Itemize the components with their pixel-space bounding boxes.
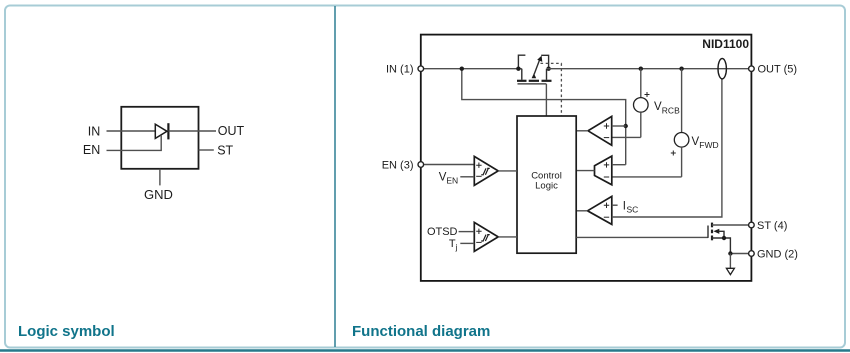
wire U4 output bbox=[498, 170, 517, 172]
junction switch pivot bbox=[546, 67, 550, 71]
wire GND stub bbox=[159, 169, 161, 186]
panel divider bbox=[334, 6, 336, 347]
svg-text:OUT (5): OUT (5) bbox=[758, 64, 798, 76]
wire ST bbox=[199, 149, 214, 151]
ground bbox=[726, 254, 734, 275]
Q2 gate bar bbox=[707, 226, 709, 238]
wire GND rail bbox=[730, 253, 751, 255]
svg-text:IN (1): IN (1) bbox=[386, 64, 414, 76]
voltage source VFWD bbox=[612, 69, 689, 177]
svg-text:IN: IN bbox=[88, 125, 101, 139]
svg-text:V: V bbox=[654, 101, 662, 113]
wire EN rail bbox=[421, 164, 475, 166]
junction comparator plus node bbox=[624, 124, 628, 128]
Q1 channel segments bbox=[517, 80, 527, 82]
Q1 body arrow bbox=[532, 73, 537, 78]
Q2 body arrow bbox=[713, 229, 719, 234]
Q1 drain lead bbox=[546, 69, 548, 80]
value label ISC bbox=[623, 200, 639, 214]
control logic block bbox=[517, 116, 576, 253]
comparator U2 (forward regulation) bbox=[595, 156, 612, 185]
comparator U5 thermal bbox=[474, 222, 498, 251]
wire U5 output bbox=[498, 236, 517, 238]
switch contact post bbox=[518, 55, 525, 68]
svg-text:OTSD: OTSD bbox=[427, 226, 458, 238]
wire gate to control logic bbox=[545, 84, 547, 116]
svg-text:EN (3): EN (3) bbox=[382, 159, 414, 171]
wire IN rail bbox=[421, 68, 522, 70]
Q1 gate bar bbox=[518, 83, 547, 85]
wire U3 output bbox=[576, 210, 587, 212]
svg-text:FWD: FWD bbox=[699, 140, 718, 150]
Q1 source lead bbox=[521, 69, 523, 80]
comparator U4 enable bbox=[474, 156, 498, 185]
svg-text:Functional diagram: Functional diagram bbox=[352, 323, 490, 340]
value label VEN bbox=[439, 171, 459, 185]
junction VRCB tap bbox=[639, 67, 643, 71]
wire U1 plus input bbox=[612, 125, 626, 127]
svg-text:ST (4): ST (4) bbox=[757, 220, 787, 232]
wire IN to diode bbox=[107, 130, 156, 132]
signal label Tj bbox=[449, 238, 458, 252]
junction IN sense bbox=[460, 67, 464, 71]
svg-text:V: V bbox=[692, 136, 700, 148]
wire OUT rail bbox=[547, 68, 752, 70]
Q2 source lead bbox=[712, 238, 730, 254]
wire U3 minus to sense bbox=[612, 78, 722, 217]
svg-text:Logic symbol: Logic symbol bbox=[18, 323, 115, 340]
comparator U1 (reverse block) bbox=[588, 116, 612, 145]
wire U2 output bbox=[576, 170, 594, 172]
svg-text:OUT: OUT bbox=[218, 124, 245, 138]
junction Q2 body-source bbox=[722, 236, 726, 240]
svg-text:RCB: RCB bbox=[662, 105, 680, 115]
wire diode to OUT bbox=[168, 130, 216, 132]
status transistor Q2 bbox=[708, 223, 730, 254]
junction VFWD tap bbox=[679, 67, 683, 71]
dashed gate control link bbox=[541, 63, 562, 116]
wire U3 plus stub bbox=[612, 204, 618, 206]
voltage source VRCB bbox=[612, 69, 648, 138]
svg-text:GND: GND bbox=[144, 187, 173, 202]
pin IN (1) bbox=[418, 66, 424, 72]
svg-text:ST: ST bbox=[217, 143, 233, 157]
pin ST (4) bbox=[749, 222, 755, 228]
Q2 body lead bbox=[719, 231, 724, 238]
svg-text:GND (2): GND (2) bbox=[757, 248, 798, 260]
svg-text:EN: EN bbox=[83, 143, 100, 157]
svg-text:j: j bbox=[455, 242, 458, 252]
svg-text:NID1100: NID1100 bbox=[702, 37, 749, 51]
junction switch contact bbox=[516, 67, 520, 71]
logic symbol box bbox=[121, 107, 198, 169]
diode D1 bbox=[155, 123, 168, 139]
wire Tj stub bbox=[460, 242, 474, 244]
pin GND (2) bbox=[749, 251, 755, 257]
wire OTSD stub bbox=[459, 231, 475, 233]
pass transistor Q1 bbox=[517, 69, 552, 84]
junction GND node bbox=[728, 251, 732, 255]
wire VEN stub bbox=[460, 176, 474, 178]
svg-text:SC: SC bbox=[627, 205, 639, 215]
wire EN to diode bbox=[107, 135, 162, 150]
wire U2 plus input bbox=[612, 164, 626, 166]
switch arm bbox=[534, 58, 540, 74]
VFWD plus sign bbox=[671, 151, 676, 156]
Q2 channel segments bbox=[711, 223, 713, 228]
pin EN (3) bbox=[418, 162, 424, 168]
svg-text:Logic: Logic bbox=[535, 181, 558, 192]
bottom teal rule bbox=[0, 349, 850, 351]
current sensor oval bbox=[718, 58, 726, 78]
svg-text:EN: EN bbox=[446, 175, 458, 185]
value label VFWD bbox=[692, 136, 719, 150]
value label VRCB bbox=[654, 101, 680, 115]
VRCB plus sign bbox=[645, 92, 650, 97]
node sense branch from IN bbox=[462, 69, 626, 165]
pin OUT (5) bbox=[749, 66, 755, 72]
functional diagram outer box bbox=[421, 35, 752, 281]
wire control to Q2 gate bbox=[576, 236, 708, 238]
wire U1 output bbox=[576, 130, 588, 132]
wire Q2 drain to ST bbox=[712, 224, 751, 226]
comparator U3 short-circuit bbox=[588, 196, 612, 224]
switch arm arrowhead bbox=[537, 56, 542, 62]
switch pivot post bbox=[541, 55, 548, 68]
